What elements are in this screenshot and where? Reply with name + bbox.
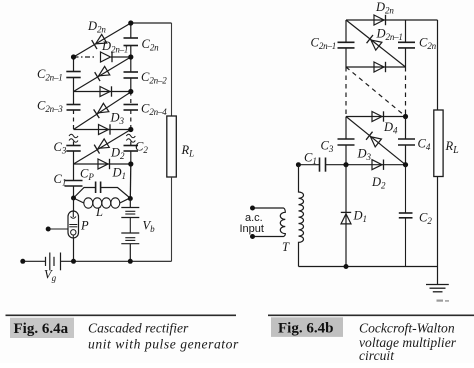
label D2n-1 (right circuit) (376, 27, 403, 43)
diode D4 row (right circuit) (346, 111, 406, 121)
transformer T secondary winding (299, 165, 304, 267)
capacitor C2 (right circuit) (399, 165, 413, 267)
diode (unlabelled) row2 (right circuit) (346, 62, 406, 72)
diode D1 vertical (right circuit) (341, 165, 351, 267)
label C2 (right circuit) (419, 211, 432, 227)
svg-text:D1: D1 (353, 209, 367, 225)
svg-text:D2n: D2n (87, 19, 106, 35)
wire: load rail lower (right circuit) (437, 177, 439, 267)
diode D3 on diagonal (74, 92, 131, 130)
resistor RL (left circuit) (167, 116, 177, 177)
caption box Fig. 6.4b (271, 317, 343, 337)
svg-text:C3: C3 (321, 139, 334, 155)
wire: dashed left rail continuation (345, 67, 347, 117)
label Vb (143, 219, 156, 235)
svg-text:D2n: D2n (375, 0, 394, 16)
label C2n-1 (right circuit) (311, 36, 337, 52)
label L (95, 205, 103, 219)
capacitor C2n (right circuit right rail) (398, 20, 415, 67)
diode D2 on diagonal (left circuit) (74, 130, 131, 165)
node: ac input top terminal (250, 206, 255, 211)
svg-text:C2n: C2n (419, 36, 437, 52)
node: left rail D2 junction (343, 162, 348, 167)
svg-text:circuit: circuit (359, 348, 395, 363)
node: right rail row1 (128, 54, 133, 59)
label C1 (left circuit) (54, 172, 67, 188)
caption text left (88, 321, 239, 352)
wire: top output wire from top node to load rail (131, 22, 172, 24)
capacitor C2n-3 (left rail, dashed continuation) (67, 92, 81, 130)
wire: grid lead with terminal (46, 227, 68, 232)
svg-text:D4: D4 (383, 120, 398, 136)
svg-text:D2n–1: D2n–1 (101, 39, 128, 55)
label D3 (right circuit) (357, 147, 372, 163)
label D1 (right circuit) (353, 209, 367, 225)
resistor RL (right circuit) (434, 110, 443, 177)
svg-text:C2n–1: C2n–1 (311, 36, 337, 52)
diode D2 row (right circuit) (346, 160, 406, 170)
node: tube cathode junction (71, 259, 76, 264)
rule above right caption (268, 314, 474, 316)
label D2 (right circuit) (371, 175, 386, 191)
capacitor C2 (left circuit right rail) (124, 142, 139, 165)
label C3 (left circuit) (54, 140, 67, 156)
svg-text:C2n–4: C2n–4 (141, 102, 167, 118)
wire: bottom return wire (23, 260, 172, 262)
inductor L (74, 198, 131, 208)
wire: dashed diagonal continuation (346, 67, 405, 116)
node: top output node (128, 20, 133, 25)
capacitor C1 (right circuit) (298, 158, 346, 172)
node: junction left of pulse gap (71, 196, 76, 201)
label C2n-4 (141, 102, 167, 118)
diode D2n-1 on horizontal row (dash-dot) (74, 52, 131, 62)
ground symbol (426, 267, 449, 292)
diode (unlabelled) on horizontal row2 (74, 86, 131, 96)
svg-text:D3: D3 (357, 147, 372, 163)
svg-text:unit with pulse generator: unit with pulse generator (88, 337, 239, 352)
break squiggle left rail (69, 134, 78, 142)
wire: dashed right rail continuation (405, 67, 407, 117)
label C2n-3 (37, 99, 63, 115)
svg-text:C4: C4 (418, 137, 431, 153)
wire: bottom return (right circuit) (299, 266, 438, 268)
capacitor CP bridge (74, 182, 131, 199)
capacitor C2n-4 (right rail, dashed continuation) (124, 92, 139, 130)
label CP (80, 167, 94, 183)
node: right rail row2 (128, 89, 133, 94)
transformer T primary winding (252, 208, 285, 237)
svg-text:C2n–2: C2n–2 (141, 70, 167, 86)
svg-text:Fig. 6.4b: Fig. 6.4b (278, 321, 333, 337)
svg-text:RL: RL (181, 143, 195, 159)
wire: right rail row4 to pulse junction (129, 164, 132, 199)
capacitor C4 (right circuit) (398, 117, 415, 165)
capacitor C1 (left rail) (65, 164, 83, 198)
diode D3 on diagonal (right circuit) (346, 117, 406, 165)
svg-text:D2: D2 (110, 146, 125, 162)
svg-text:Vb: Vb (143, 219, 156, 235)
svg-text:Cockcroft-Walton: Cockcroft-Walton (359, 321, 455, 336)
label C2n-1 (left circuit) (37, 67, 63, 83)
svg-text:D2n–1: D2n–1 (376, 27, 403, 43)
scan smudge mark (437, 300, 450, 302)
tube P (pulse generator) (68, 198, 79, 261)
label RL (181, 143, 195, 159)
svg-text:C2n: C2n (142, 37, 160, 53)
break squiggle right rail (126, 134, 135, 142)
svg-text:C2n–1: C2n–1 (37, 67, 63, 83)
svg-text:Input: Input (240, 223, 264, 235)
node: right rail D2 junction (403, 162, 408, 167)
label D2n-1 (101, 39, 128, 55)
label D2n (87, 19, 106, 35)
svg-text:D3: D3 (110, 111, 125, 127)
capacitor C2n (right rail) (124, 23, 139, 57)
diode D2n-1 on diagonal (right circuit) (346, 20, 406, 67)
label D1 (left circuit) (112, 166, 126, 182)
svg-text:C2: C2 (419, 211, 432, 227)
capacitor C3 (left rail) (66, 142, 80, 165)
node: C1 left junction (296, 162, 301, 167)
node: left rail row1 (71, 54, 76, 59)
caption text right (359, 321, 457, 364)
svg-text:CP: CP (80, 167, 94, 183)
caption box Fig. 6.4a (10, 318, 74, 338)
svg-text:RL: RL (445, 139, 460, 156)
svg-text:P: P (80, 219, 89, 233)
diode (unlabelled) on diagonal row2 (74, 57, 131, 92)
label D4 (383, 120, 398, 136)
label Vg (44, 268, 57, 284)
diode D1 on horizontal row (left circuit) (74, 159, 131, 169)
label a.c. Input (240, 212, 264, 235)
rule above left caption (6, 314, 237, 316)
label RL (right circuit) (445, 139, 460, 156)
node: input terminal bottom left (20, 259, 25, 264)
node: ac input bottom terminal (250, 234, 255, 239)
node: battery Vb bottom junction (128, 259, 133, 264)
node: right rail row4 (128, 161, 133, 166)
label C4 (418, 137, 431, 153)
node: right rail row3 (128, 127, 133, 132)
node: D1 bottom junction (344, 264, 349, 269)
battery Vb (121, 199, 139, 262)
label D2n (right circuit) (375, 0, 394, 16)
wire: top wire with output extension (346, 19, 438, 21)
label C2n-2 (141, 70, 167, 86)
node: junction right of pulse gap (128, 196, 133, 201)
svg-text:C1: C1 (54, 172, 67, 188)
diode (unlabelled) on horizontal row3 (74, 124, 131, 134)
label T (282, 240, 290, 254)
wire: load rail (right circuit) (437, 20, 439, 110)
svg-text:D1: D1 (112, 166, 126, 182)
svg-text:L: L (95, 205, 103, 219)
wire: load rail upper segment (171, 23, 173, 116)
svg-text:T: T (282, 240, 290, 254)
svg-text:C1: C1 (304, 151, 317, 167)
diode D2n (right circuit) (374, 15, 386, 25)
capacitor C3 (right circuit) (338, 117, 355, 165)
svg-text:Cascaded rectifier: Cascaded rectifier (88, 321, 189, 336)
label C2 (left circuit) (135, 140, 148, 156)
svg-text:C2n–3: C2n–3 (37, 99, 63, 115)
capacitor C2n-2 (right rail) (124, 57, 139, 92)
svg-text:C3: C3 (54, 140, 67, 156)
wire: load rail lower segment (171, 177, 173, 261)
label C1 (right circuit) (304, 151, 317, 167)
label P (80, 219, 89, 233)
svg-text:Vg: Vg (44, 268, 57, 284)
label C3 (right circuit) (321, 139, 334, 155)
diode D2n on diagonal (74, 23, 131, 57)
svg-text:Fig. 6.4a: Fig. 6.4a (14, 321, 69, 337)
capacitor C2n-1 (right circuit left rail) (338, 20, 355, 67)
svg-text:D2: D2 (371, 175, 386, 191)
node: right rail D4 junction (403, 114, 408, 119)
svg-text:C2: C2 (135, 140, 148, 156)
label D3 (left circuit) (110, 111, 125, 127)
capacitor C2n-1 (left rail) (66, 57, 80, 92)
label C2n (right circuit) (419, 36, 437, 52)
battery Vg (46, 253, 61, 271)
label C2n (left circuit) (142, 37, 160, 53)
label D2 (left circuit) (110, 146, 125, 162)
